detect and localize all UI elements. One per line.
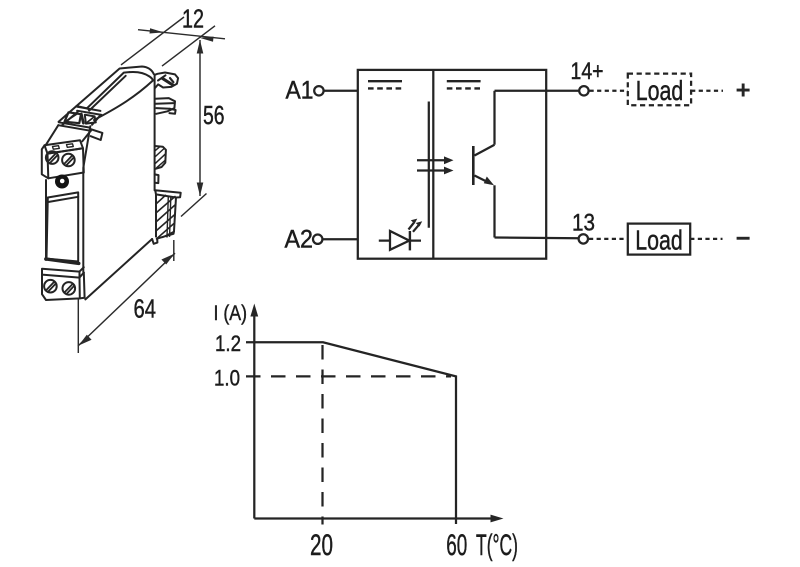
svg-text:14+: 14+ bbox=[571, 58, 604, 85]
svg-text:1.0: 1.0 bbox=[214, 366, 240, 391]
svg-text:Load: Load bbox=[636, 75, 684, 106]
svg-text:1.2: 1.2 bbox=[215, 331, 241, 356]
svg-text:A1: A1 bbox=[286, 77, 314, 105]
svg-text:I (A): I (A) bbox=[214, 302, 248, 325]
svg-text:56: 56 bbox=[203, 100, 225, 130]
svg-text:Load: Load bbox=[635, 225, 683, 256]
svg-text:20: 20 bbox=[310, 529, 333, 562]
svg-text:A2: A2 bbox=[285, 226, 314, 254]
svg-text:12: 12 bbox=[182, 3, 204, 33]
svg-text:60: 60 bbox=[446, 529, 467, 562]
svg-text:64: 64 bbox=[134, 294, 157, 324]
svg-text:T(°C): T(°C) bbox=[476, 529, 518, 562]
svg-text:13: 13 bbox=[572, 210, 595, 237]
